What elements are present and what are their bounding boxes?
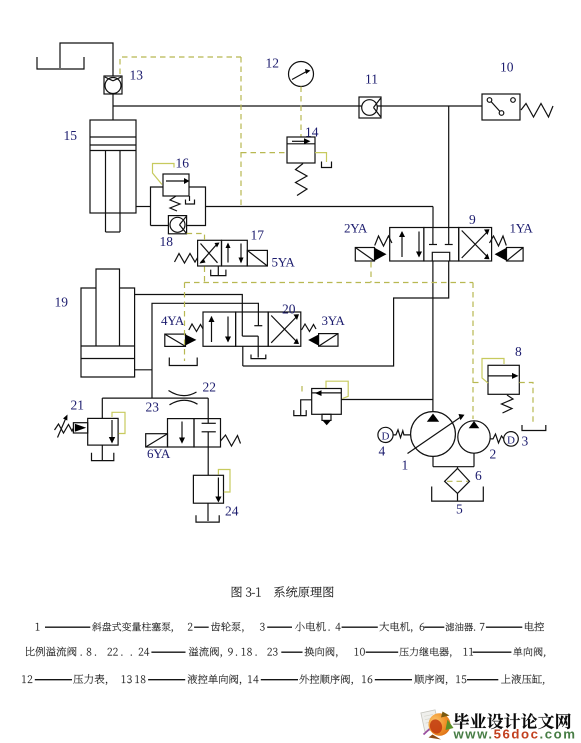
relief valve 8	[488, 365, 519, 394]
manifold block right branch	[187, 187, 206, 226]
svg-text:1: 1	[402, 458, 409, 473]
svg-text:4YA: 4YA	[161, 313, 185, 328]
variable displacement piston pump 1	[408, 412, 465, 457]
watermark site name	[453, 713, 469, 729]
svg-text:20: 20	[282, 302, 296, 317]
svg-text:13: 13	[130, 68, 144, 83]
oil tank T1 (top-left reservoir)	[37, 57, 84, 69]
svg-text:D: D	[382, 430, 390, 442]
valve 9 centre position blocked ports	[429, 228, 453, 262]
svg-text:3: 3	[522, 434, 529, 449]
svg-text:2: 2	[490, 447, 497, 462]
check valve 11	[359, 97, 381, 118]
tank under valve 14	[322, 162, 332, 168]
svg-text:21: 21	[71, 398, 85, 413]
spring of valve 23	[221, 435, 241, 446]
svg-text:D: D	[507, 434, 515, 446]
svg-text:12: 12	[266, 56, 280, 71]
svg-text:19: 19	[55, 295, 69, 310]
svg-text:15: 15	[64, 128, 78, 143]
coupling pump 2 to motor 3	[490, 434, 504, 443]
tank under 4YA solenoid	[169, 358, 197, 366]
hydraulic cylinder 19 (lower cylinder, rod up)	[81, 269, 135, 377]
sequence valve 16	[163, 174, 190, 196]
pilot hook of valve 16	[153, 164, 175, 185]
svg-text:10: 10	[500, 60, 514, 75]
drain of valve 24 to tank	[196, 503, 219, 522]
svg-text:1YA: 1YA	[510, 221, 534, 236]
figure caption	[22, 586, 545, 685]
proportional solenoid of valve 21	[73, 423, 87, 433]
dashed branch to relief valve 8	[473, 382, 481, 384]
pilot hook of valve 24	[218, 470, 230, 493]
svg-text:22: 22	[203, 380, 217, 395]
valve 23 right position blocked	[202, 419, 216, 447]
wire: upper pressure bus (y=106) from valve 13 to pressure relay 10	[113, 105, 482, 107]
manifold block around valves 16/18: left branch	[151, 187, 164, 226]
svg-text:www.56doc.com: www.56doc.com	[453, 727, 577, 742]
wire valve 20 P-port to staircase	[242, 346, 244, 366]
wire valve 21 to bus	[101, 398, 103, 418]
dashed drop to tank at left end	[184, 283, 186, 362]
svg-text:3YA: 3YA	[322, 313, 346, 328]
svg-text:11: 11	[365, 72, 378, 87]
proportional solenoid of valve 7	[322, 414, 331, 425]
manifold block bottom-left branch	[151, 225, 169, 227]
oil tank 5	[432, 487, 484, 502]
wire cylinder 15 rod-port to valve block	[136, 206, 151, 208]
hydraulic cylinder 15 (upper press cylinder)	[90, 120, 136, 232]
pilot supply (dashed) valve 17 from control bus	[204, 267, 206, 283]
directional valve 23 body (2-position)	[168, 419, 221, 447]
wire from valve 13 down to cylinder 15	[112, 94, 114, 120]
svg-text:23: 23	[146, 400, 160, 415]
drain (dashed) of valve 8 to tank	[519, 383, 533, 426]
control-oil bus (dashed) from gear pump 2	[185, 282, 474, 284]
svg-text:6YA: 6YA	[147, 446, 171, 461]
valve 17 left position crossed arrows	[200, 243, 220, 264]
svg-text:8: 8	[515, 344, 522, 359]
proportional relief valve 7	[312, 389, 342, 415]
spring of valve 16	[170, 196, 180, 211]
wire cylinder 19 bottom port	[135, 369, 152, 371]
pilot line (dashed) vertical to main bus	[240, 57, 242, 206]
svg-text:5YA: 5YA	[272, 255, 296, 270]
svg-text:2YA: 2YA	[344, 221, 368, 236]
solenoid 4YA of valve 20	[165, 334, 197, 346]
check valve 18	[168, 216, 186, 234]
valve 20 left position arrows	[209, 316, 232, 343]
gauge connection line (olive)	[300, 87, 302, 138]
valve 9 left position arrows	[399, 231, 422, 258]
wire from tank T1 to check valve 13	[60, 43, 113, 76]
spring of valve 21	[55, 424, 74, 433]
solenoid 1YA of valve 9	[495, 248, 523, 262]
relief valve 21	[88, 418, 118, 445]
spring of relay 10	[521, 104, 553, 118]
coupling motor 4 to pump 1	[393, 430, 411, 438]
small pilot dashes near valve 7	[301, 386, 303, 395]
relief valve 24	[193, 475, 223, 503]
wire: main bus (y=206.5) from block to valve 9	[206, 206, 434, 208]
pressure relay 10	[482, 94, 520, 120]
wire cylinder 19 rod port to valve 20 port A	[135, 295, 243, 313]
solenoid 2YA of valve 9	[355, 248, 386, 262]
wire valve 9 T-port to valve 20 feed (staircase)	[243, 261, 449, 366]
drain of valve 7 to tank	[294, 400, 312, 416]
wire bus to valve 23	[207, 398, 209, 419]
pilot hook of valve 8	[482, 359, 504, 384]
pilot line (dashed) branch to valve 14 left port	[241, 152, 287, 154]
wire valve 9 P-port down to pump 1	[432, 261, 434, 412]
svg-text:16: 16	[176, 156, 190, 171]
pilot hook of valve 7	[326, 381, 348, 398]
spring of valve 17	[175, 254, 198, 264]
pilot hook of valve 21	[112, 412, 125, 433]
valve 20 right position crossed arrows	[271, 314, 299, 344]
valve 23 left position arrow	[179, 422, 185, 444]
pilot-operated check valve 13	[104, 76, 122, 94]
pilot line (dashed) check valve 18 to valve 17	[187, 234, 205, 241]
directional valve 17 body	[198, 240, 248, 266]
tank under valve 20 centre	[251, 355, 266, 359]
spring left of valve 9	[375, 236, 392, 246]
electric motor 4 (large)	[378, 427, 393, 442]
valve 9 right position crossed arrows	[462, 229, 490, 259]
gear pump 2	[458, 421, 490, 453]
directional valve 20 body (3-position)	[203, 312, 301, 346]
spring of valve 14	[296, 164, 308, 196]
solenoid 3YA of valve 20	[308, 334, 338, 347]
adjust arrow of valve 21	[58, 415, 68, 438]
watermark logo: paper sheet	[421, 710, 439, 732]
wire valve 23 to relief valve 24	[207, 447, 209, 475]
svg-text:6: 6	[475, 468, 482, 483]
valve 20 centre position: A to drain, B blocked	[242, 312, 262, 358]
valve 14 drain (olive) to tank	[315, 153, 327, 162]
svg-text:9: 9	[469, 212, 476, 227]
spring left of valve 20	[189, 324, 203, 332]
filter 6	[445, 468, 470, 493]
wire valve 9 A-port to main bus	[432, 207, 434, 228]
drain of valve 16 to tank	[186, 196, 195, 204]
drain of valve 17 to tank	[211, 266, 226, 276]
solenoid 6YA of valve 23	[146, 434, 168, 447]
suction wires pumps to filter	[433, 453, 474, 468]
dashed drain of valve 9 solenoid	[370, 262, 372, 283]
valve 17 right position arrows	[226, 243, 244, 264]
svg-text:5: 5	[456, 502, 463, 517]
solenoid 5YA of valve 17	[247, 250, 267, 266]
wire lower control bus y=398	[102, 397, 208, 399]
tank under valve 8 drain	[522, 425, 546, 431]
svg-text:18: 18	[160, 234, 174, 249]
dashed riser from gear pump 2 outlet	[472, 283, 474, 420]
watermark logo: orange fruit	[426, 711, 453, 738]
watermark logo: pen	[424, 723, 437, 735]
spring of valve 8	[502, 395, 514, 413]
electric motor 3 (small)	[504, 432, 519, 447]
svg-text:24: 24	[225, 504, 239, 519]
svg-text:4: 4	[379, 444, 386, 459]
spring right of valve 20	[302, 324, 317, 332]
spring right of valve 9	[490, 236, 507, 246]
directional valve 9 body (3-position)	[390, 228, 492, 262]
wire valve 9 B-port to upper bus junction	[448, 106, 450, 228]
throttle valve 22	[169, 391, 198, 405]
wire to valve 20 port B	[152, 303, 258, 398]
svg-text:14: 14	[305, 125, 319, 140]
wire valve 7 to pump pressure line	[341, 399, 433, 401]
drain of valve 21 to tank	[92, 445, 114, 461]
pressure gauge 12	[289, 62, 314, 87]
pilot line (dashed) valve13 - node - sequence valve 14	[120, 57, 241, 74]
externally controlled sequence valve 14	[287, 137, 315, 163]
svg-text:17: 17	[251, 228, 265, 243]
